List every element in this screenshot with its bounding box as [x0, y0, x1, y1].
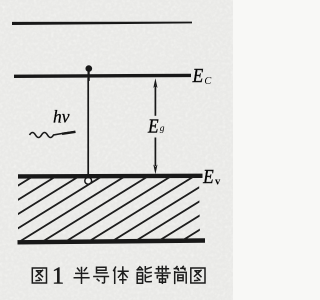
caption char ban (half) [74, 268, 89, 284]
label Ev [202, 166, 221, 188]
svg-text:g: g [160, 124, 165, 134]
svg-text:C: C [204, 76, 211, 87]
label Ec [192, 65, 212, 87]
wire Eg arrow lower segment with arrowhead [154, 138, 156, 167]
wire electron-hole transition vertical line [87, 78, 89, 175]
caption char neng (energy) [137, 267, 151, 283]
node hole circle on Ev [85, 177, 92, 184]
caption char dai (band) [155, 266, 170, 283]
caption char dao (conduct) [94, 267, 109, 283]
wire conduction band edge line Ec [14, 74, 191, 78]
svg-text:E: E [202, 166, 213, 188]
caption char tu2 (figure) [191, 268, 205, 283]
svg-text:v: v [215, 177, 221, 188]
wire Eg arrow upper segment with arrowhead [154, 86, 156, 116]
caption char tu (figure) [32, 268, 46, 283]
caption: 图 1 半导体能带简图 drawn as strokes [32, 264, 205, 290]
wire valence band edge line Ev [18, 174, 203, 179]
node electron dot on Ec [86, 65, 93, 72]
wire upper energy level line [12, 22, 192, 25]
caption char ti (body) [114, 267, 128, 283]
label Eg [147, 115, 165, 137]
svg-text:E: E [192, 65, 203, 87]
wire photon hv wavy arrow [30, 132, 76, 138]
wire bottom line of valence band box [18, 241, 206, 243]
caption char jian (simple) [174, 266, 186, 283]
svg-text:1: 1 [52, 264, 64, 290]
svg-text:E: E [147, 115, 158, 137]
svg-text:hν: hν [53, 107, 70, 127]
